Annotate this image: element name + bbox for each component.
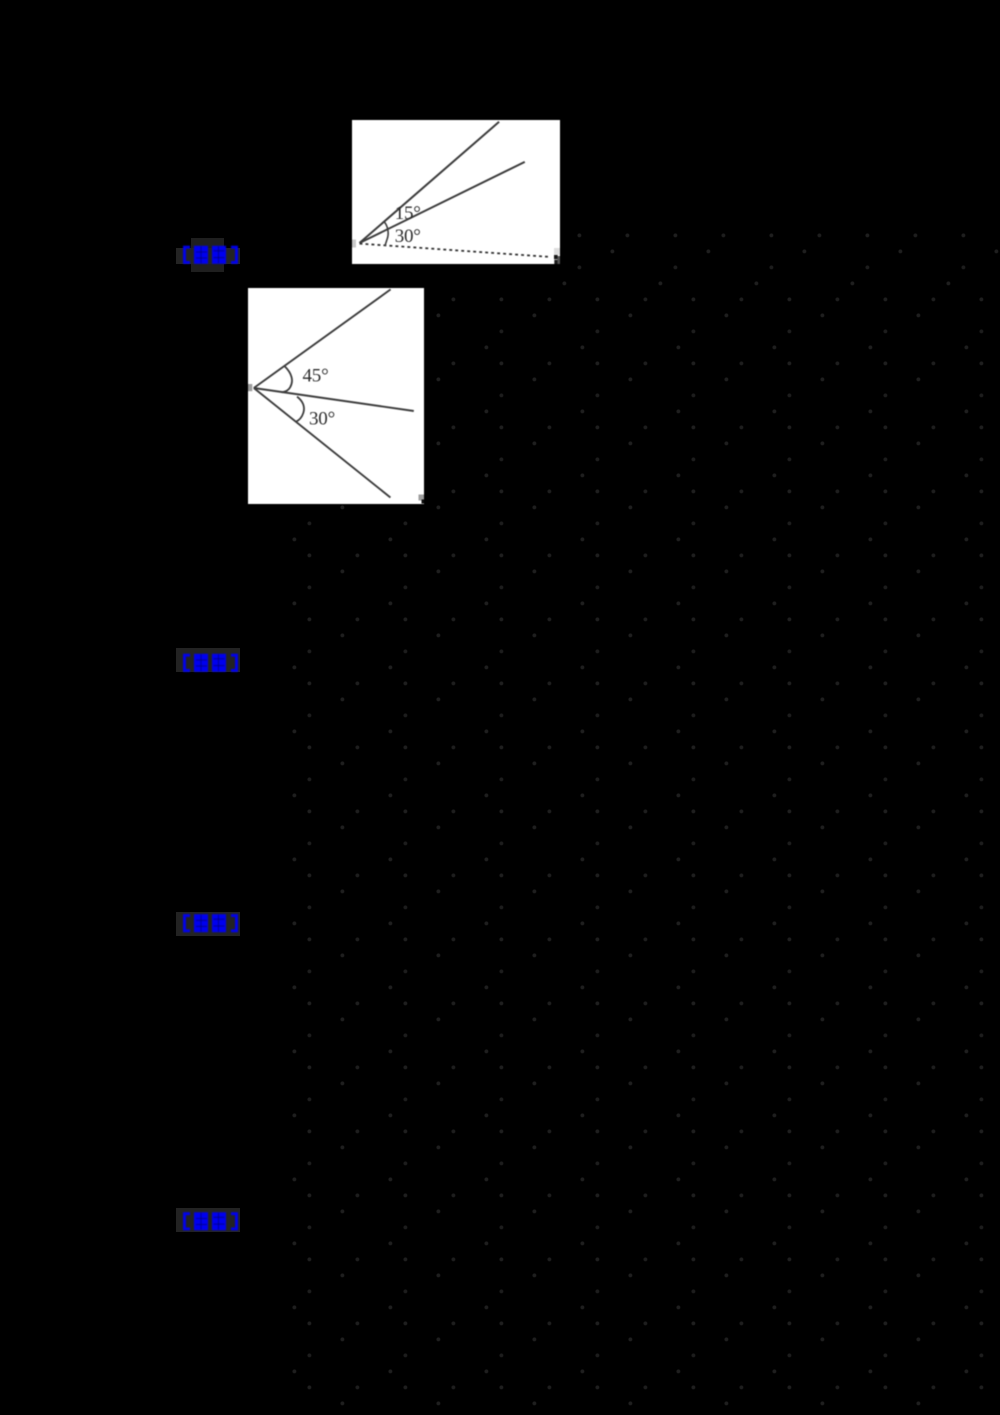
gray handle left: [248, 384, 252, 391]
angle arc: [384, 222, 388, 247]
ray down-right: [254, 388, 391, 498]
small black dot bottom-right: [422, 500, 425, 504]
ray upper (45-deg side of triangle ruler): [360, 122, 500, 243]
section label 2 (dian ping) blue text: [185, 654, 237, 672]
section label 3 (fen xi) blue text: [185, 914, 237, 932]
gray handle left: [352, 240, 356, 248]
gray handle bottom-right: [419, 495, 425, 501]
white image background: [248, 288, 424, 504]
section label 1 highlight blocks: [191, 238, 224, 272]
ray up-right: [254, 289, 391, 388]
section label 4 highlight: [176, 1208, 240, 1232]
ray middle: [360, 162, 525, 243]
arc 45: [282, 366, 292, 392]
figure image 1 (15/30 degree diagram): [352, 120, 560, 264]
small dark mark bottom-right: [554, 255, 558, 259]
section label 3 highlight: [176, 912, 240, 936]
gray handle bottom-right: [554, 248, 560, 255]
section label 1 (jie da) blue text: [185, 246, 237, 264]
section label 4 (jie da) blue text: [185, 1212, 237, 1230]
watermark dot field main: [290, 288, 1000, 1415]
section label 2 highlight: [176, 648, 240, 672]
figure image 2 (45/30 degree diagram): [248, 288, 424, 504]
watermark dot field upper (right of figure 1): [560, 224, 1000, 288]
ray right: [254, 388, 414, 411]
dotted base line: [360, 244, 552, 257]
white image background: [352, 120, 560, 264]
arc 30: [296, 397, 304, 422]
